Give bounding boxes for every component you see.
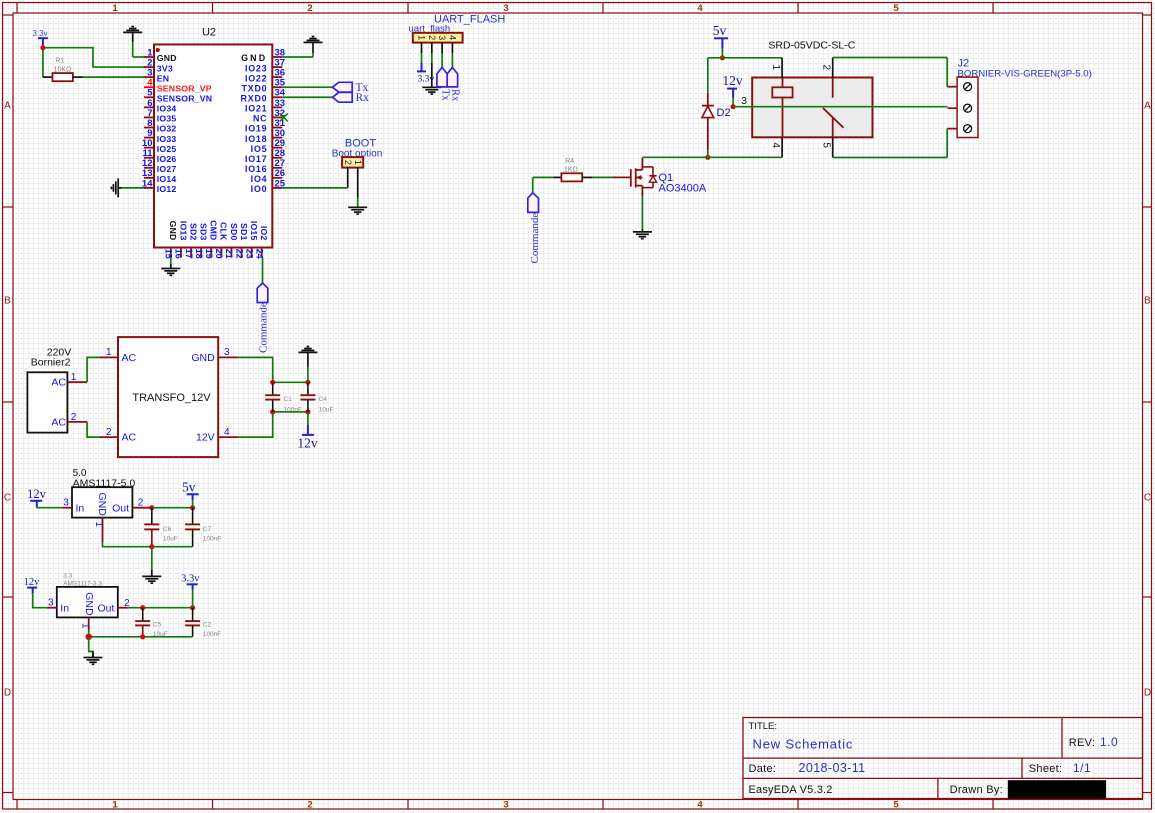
relay pin5 internal — [832, 118, 834, 138]
svg-text:IO34: IO34 — [157, 104, 177, 114]
svg-text:Commande: Commande — [257, 302, 269, 353]
ground (U2 pin15) — [161, 268, 180, 270]
power flag 12v (transformer) — [307, 425, 309, 435]
wire 12v to relay pin3 — [732, 98, 734, 107]
svg-text:U2: U2 — [202, 27, 216, 39]
U2 pin 22 SD1 — [241, 248, 243, 258]
svg-text:CLK: CLK — [219, 222, 229, 241]
svg-text:24: 24 — [255, 249, 265, 259]
svg-text:100nF: 100nF — [203, 631, 221, 638]
svg-text:20: 20 — [214, 249, 224, 259]
junction 3.3v — [40, 45, 45, 50]
wire BOOT pin1 to ground — [357, 198, 359, 208]
U2 pin 30 IO18 — [272, 137, 282, 139]
svg-text:EN: EN — [157, 73, 169, 83]
AMS3.3 pin3 lead — [47, 607, 57, 609]
relay pin1 lead — [781, 58, 783, 78]
svg-text:2: 2 — [71, 412, 77, 423]
wire 5v to rail — [721, 49, 723, 58]
relay coil lead bottom — [782, 98, 784, 138]
svg-text:TRANSFO_12V: TRANSFO_12V — [132, 392, 211, 404]
svg-text:RXD0: RXD0 — [241, 93, 268, 103]
svg-text:REV:: REV: — [1069, 737, 1095, 749]
svg-text:IO0: IO0 — [251, 184, 268, 194]
svg-text:1KΩ: 1KΩ — [564, 167, 578, 174]
net port Rx — [333, 92, 353, 102]
svg-text:Out: Out — [97, 602, 114, 614]
svg-text:AO3400A: AO3400A — [659, 183, 707, 195]
transformer pin1 lead — [99, 356, 118, 358]
svg-text:18: 18 — [194, 249, 204, 259]
frame column ticks — [16, 3, 18, 14]
svg-text:C6: C6 — [163, 526, 172, 533]
U2 pin 11 IO26 — [144, 157, 154, 159]
wire TXD0 to Tx port — [282, 86, 332, 88]
svg-text:AC: AC — [51, 416, 66, 428]
U2 pin 15 GND — [170, 248, 172, 258]
svg-text:A: A — [1144, 101, 1151, 112]
wire Out to 5v — [152, 507, 193, 509]
title block frame — [743, 718, 1143, 799]
svg-text:2: 2 — [106, 427, 112, 438]
svg-text:3: 3 — [48, 598, 54, 609]
wire drain rail to relay pin4 — [642, 156, 782, 158]
wire R1 to U2 pin3 EN — [83, 76, 145, 78]
transistor Q1 — [613, 176, 631, 178]
svg-text:SD2: SD2 — [188, 223, 198, 241]
svg-text:3.3: 3.3 — [63, 573, 72, 580]
U2 pin1 marker dot — [156, 48, 160, 52]
wire 3.3v to rail — [192, 590, 194, 608]
U2 pin 37 IO23 — [272, 66, 282, 68]
wire R4 to Q1 gate — [592, 176, 613, 178]
regulator U-5.0 body — [72, 487, 132, 517]
U2 pin 24 IO2 — [261, 248, 263, 258]
svg-text:SD3: SD3 — [199, 223, 209, 241]
svg-text:3: 3 — [224, 347, 230, 358]
U2 pin 3 EN — [144, 76, 154, 78]
relay switch blade — [823, 108, 844, 128]
svg-text:C1: C1 — [284, 396, 293, 403]
svg-text:AC: AC — [122, 432, 137, 444]
U2 pin 14 IO12 — [144, 187, 154, 189]
J2 pin1 lead — [947, 86, 957, 88]
relay pin5 lead — [832, 137, 834, 157]
wire ground to U2 pin14 — [122, 187, 144, 189]
ground (AMS3.3) — [84, 657, 103, 659]
svg-text:2: 2 — [343, 160, 353, 165]
svg-text:5v: 5v — [182, 480, 196, 495]
wire Out to 3.3v — [128, 607, 193, 609]
svg-text:IO14: IO14 — [157, 174, 177, 184]
net flag Rx (UART) — [447, 67, 457, 87]
junction C4 bottom — [305, 409, 310, 414]
junction relay pin3 — [731, 104, 736, 109]
U2 pin 31 IO19 — [272, 126, 282, 128]
wire to ground (AMS5.0) — [151, 547, 153, 570]
relay pin2 lead — [832, 58, 834, 78]
svg-text:12v: 12v — [297, 435, 318, 450]
junction C6 bottom — [149, 544, 154, 549]
svg-text:IO17: IO17 — [245, 154, 267, 164]
U2 pin 12 IO27 — [144, 167, 154, 169]
svg-text:10KΩ: 10KΩ — [54, 66, 72, 73]
relay pin2 internal — [832, 78, 834, 98]
wire transformer 12V to caps — [238, 412, 273, 437]
svg-text:TITLE:: TITLE: — [749, 721, 778, 732]
svg-text:D2: D2 — [717, 107, 731, 119]
junction C1 bottom — [270, 409, 275, 414]
svg-text:AC: AC — [122, 352, 137, 364]
header BOOT — [342, 157, 363, 168]
svg-text:C2: C2 — [203, 622, 212, 629]
svg-text:15: 15 — [164, 249, 174, 259]
svg-text:NC: NC — [253, 114, 267, 124]
svg-text:IO33: IO33 — [157, 134, 177, 144]
svg-text:R1: R1 — [55, 58, 64, 65]
wire ground to U2 pin1 — [132, 42, 134, 57]
wire cap bottom rail — [273, 411, 308, 413]
svg-text:IO4: IO4 — [251, 174, 268, 184]
svg-text:17: 17 — [184, 249, 194, 259]
U2 pin 27 IO16 — [272, 167, 282, 169]
wire cap top rail — [273, 381, 308, 383]
svg-text:5v: 5v — [713, 23, 727, 38]
title block row dividers — [743, 757, 1143, 759]
svg-text:IO15: IO15 — [249, 221, 259, 241]
svg-text:IO16: IO16 — [245, 164, 267, 174]
ground (U2 pin14) — [117, 178, 119, 197]
svg-text:21: 21 — [224, 249, 234, 259]
drawn by redaction box — [1008, 780, 1106, 798]
power flag 3.3v (UART) — [421, 63, 423, 71]
svg-text:GND: GND — [168, 221, 178, 241]
wire 12v to In — [37, 507, 63, 509]
J2 pin3 lead — [947, 128, 957, 130]
net flag Tx (UART) — [437, 67, 447, 87]
wire U2 pin25 to BOOT — [282, 187, 347, 189]
transformer body — [118, 337, 218, 457]
svg-text:IO21: IO21 — [245, 104, 267, 114]
wire 5v to rail — [192, 500, 194, 508]
svg-text:2: 2 — [307, 800, 312, 811]
svg-text:IO27: IO27 — [157, 164, 177, 174]
no-connect cross pin 32 — [280, 113, 288, 121]
svg-text:12V: 12V — [196, 432, 215, 444]
wire relay pin5 to J2 pin3 — [833, 157, 948, 159]
svg-text:1: 1 — [112, 3, 118, 14]
svg-text:Rx: Rx — [356, 92, 370, 104]
UART pin2 lead — [431, 43, 433, 53]
svg-text:3: 3 — [437, 35, 447, 40]
svg-text:IO2: IO2 — [259, 226, 269, 241]
wire Q1 source to ground — [641, 197, 643, 229]
U2 pin 20 CLK — [220, 248, 222, 258]
U2 pin 8 IO32 — [144, 126, 154, 128]
svg-text:23: 23 — [244, 249, 254, 259]
AMS3.3 pin1 lead GND — [88, 617, 90, 630]
svg-text:In: In — [76, 502, 85, 514]
resistor R1 — [43, 76, 53, 78]
svg-text:2018-03-11: 2018-03-11 — [799, 761, 866, 775]
U2 pin 28 IO17 — [272, 157, 282, 159]
transformer pin3 lead — [218, 356, 238, 358]
svg-text:3.3v: 3.3v — [32, 29, 47, 38]
svg-text:Date:: Date: — [749, 763, 777, 775]
wire Commande to R4 — [533, 176, 554, 178]
UART pin4 lead — [451, 43, 453, 53]
svg-text:GND: GND — [157, 53, 177, 63]
junction C6 top — [149, 505, 154, 510]
svg-text:D: D — [4, 688, 11, 699]
AMS5.0 pin1 lead GND — [102, 518, 104, 543]
junction C1 top — [270, 380, 275, 385]
wire 5v rail — [708, 57, 782, 59]
AMS3.3 pin2 lead — [118, 607, 128, 609]
relay pin4 lead — [781, 137, 783, 157]
BOOT pin2 lead — [347, 168, 349, 188]
svg-text:4: 4 — [697, 3, 703, 14]
relay body — [752, 78, 872, 138]
svg-text:1: 1 — [106, 347, 112, 358]
U2 pin 9 IO33 — [144, 137, 154, 139]
svg-text:3.3v: 3.3v — [181, 574, 200, 585]
wire Bornier2 pin1 to transformer — [87, 357, 99, 382]
svg-text:In: In — [60, 602, 69, 614]
svg-text:1: 1 — [79, 623, 90, 629]
wire transformer GND to caps — [238, 357, 273, 382]
ground (AMS5.0) — [142, 575, 161, 577]
svg-text:SD1: SD1 — [239, 223, 249, 241]
wire GND to cap bottoms — [103, 543, 193, 547]
svg-text:GND: GND — [83, 592, 95, 616]
capacitor C1 — [272, 382, 274, 395]
svg-text:5: 5 — [820, 142, 831, 148]
svg-text:3V3: 3V3 — [157, 63, 173, 73]
frame row ticks — [3, 14, 14, 16]
svg-text:3: 3 — [503, 800, 508, 811]
connector Bornier2 body — [27, 372, 67, 432]
svg-text:4: 4 — [448, 35, 458, 40]
svg-text:Commande: Commande — [529, 213, 541, 264]
junction C2 top — [190, 605, 195, 610]
svg-text:TXD0: TXD0 — [242, 83, 268, 93]
svg-text:12v: 12v — [722, 73, 743, 88]
wire U2 pin24 to Commande flag — [262, 258, 264, 284]
svg-text:4: 4 — [697, 800, 703, 811]
svg-text:IO23: IO23 — [245, 63, 267, 73]
wire ground to cap rail — [307, 367, 309, 383]
svg-text:AC: AC — [51, 377, 66, 389]
U2 pin 2 3V3 — [144, 66, 154, 68]
svg-text:1: 1 — [770, 65, 781, 71]
J2 pin2 lead — [948, 107, 958, 109]
U2 pin 6 IO34 — [144, 106, 154, 108]
svg-text:12v: 12v — [24, 577, 41, 588]
capacitor C2 — [192, 608, 194, 621]
wire to ground (AMS3.3) — [89, 637, 93, 658]
wire Bornier2 pin2 to transformer — [87, 422, 99, 437]
capacitor C4 — [307, 382, 309, 395]
svg-text:C4: C4 — [319, 396, 328, 403]
transformer pin4 lead — [218, 436, 238, 438]
J2 body — [957, 77, 978, 137]
svg-text:IO32: IO32 — [157, 124, 177, 134]
net flag Commande (relay) — [528, 193, 539, 213]
U2 pin 19 CMD — [210, 248, 212, 258]
svg-text:GND: GND — [241, 53, 267, 63]
svg-text:Tx: Tx — [439, 89, 450, 101]
capacitor C7 — [192, 508, 194, 524]
svg-text:12v: 12v — [27, 487, 47, 501]
U2 pin 18 SD3 — [200, 248, 202, 258]
ground (BOOT) — [348, 206, 367, 208]
transformer pin2 lead — [99, 436, 118, 438]
svg-text:10uF: 10uF — [319, 406, 334, 413]
svg-text:100nF: 100nF — [203, 536, 221, 543]
svg-text:GND: GND — [191, 352, 215, 364]
wire cap rail to 12v flag — [307, 412, 309, 425]
AMS5.0 pin2 lead — [132, 507, 151, 509]
svg-text:R4: R4 — [565, 158, 574, 165]
wire UART pin2 to ground — [431, 53, 433, 63]
wire UART pin4 to Rx — [451, 53, 453, 67]
wire relay pin2 to J2 pin1 — [833, 57, 948, 59]
svg-text:GND: GND — [96, 493, 108, 517]
wire rail down to D2 — [707, 58, 709, 93]
U2 pin 25 IO0 — [272, 187, 282, 189]
wire U2 pin15 to ground — [170, 258, 172, 265]
UART pin1 lead — [421, 43, 423, 53]
junction GND (AMS3.3) — [86, 634, 92, 640]
svg-text:C: C — [1144, 493, 1151, 504]
J2 screw terminals — [964, 83, 972, 91]
wire GND to cap bottoms (3.3) — [88, 630, 90, 637]
resistor R4 — [554, 176, 562, 178]
svg-text:1: 1 — [93, 521, 104, 527]
svg-text:5: 5 — [893, 3, 899, 14]
svg-text:IO25: IO25 — [157, 144, 177, 154]
wire RXD0 to Rx port — [282, 96, 332, 98]
svg-text:SENSOR_VP: SENSOR_VP — [157, 83, 212, 93]
relay coil — [772, 87, 792, 97]
junction C5 top — [140, 605, 145, 610]
svg-text:1/1: 1/1 — [1073, 761, 1091, 775]
diode D2 — [707, 93, 709, 106]
U2 pin 26 IO4 — [272, 177, 282, 179]
junction C4 top — [305, 380, 310, 385]
U2 pin 16 IO13 — [180, 248, 182, 258]
svg-text:1.0: 1.0 — [1100, 735, 1118, 749]
header UART_FLASH — [413, 33, 463, 43]
ground (transformer) — [298, 351, 317, 353]
U2 pin 5 SENSOR_VN — [144, 96, 154, 98]
svg-text:4: 4 — [224, 427, 230, 438]
svg-text:4: 4 — [770, 142, 781, 148]
svg-text:2: 2 — [307, 3, 312, 14]
U2 pin 4 SENSOR_VP — [144, 86, 154, 88]
svg-text:C: C — [4, 493, 11, 504]
wire relay pin3 to J2 pin2 — [733, 106, 948, 108]
U2 pin 32 NC — [272, 116, 282, 118]
svg-text:B: B — [1144, 296, 1151, 307]
svg-text:Drawn By:: Drawn By: — [950, 784, 1003, 796]
U2 pin 38 GND — [272, 56, 282, 58]
svg-text:EasyEDA V5.3.2: EasyEDA V5.3.2 — [749, 784, 833, 796]
svg-text:16: 16 — [174, 249, 184, 259]
wire Q1 drain to rail — [641, 157, 643, 158]
AMS5.0 pin3 lead — [63, 507, 73, 509]
svg-text:3: 3 — [741, 95, 747, 107]
U2 pin 23 IO15 — [251, 248, 253, 258]
junction 5v rail — [720, 55, 725, 60]
net port Tx — [333, 82, 353, 92]
Bornier2 pin1 lead — [67, 381, 87, 383]
ground (U2 pin1) — [123, 31, 142, 33]
wire ground to U2 pin38 — [312, 53, 314, 57]
U2 pin 36 IO22 — [272, 76, 282, 78]
svg-text:1: 1 — [112, 800, 118, 811]
svg-text:B: B — [4, 296, 11, 307]
ground (UART) — [422, 86, 441, 88]
svg-text:IO22: IO22 — [245, 73, 267, 83]
svg-text:22: 22 — [234, 249, 244, 259]
BOOT pin1 lead — [357, 168, 359, 198]
U2 body — [154, 45, 272, 248]
U2 pin 7 IO35 — [144, 116, 154, 118]
wire UART pin1 to 3.3v — [421, 53, 423, 63]
net flag Commande (U2) — [257, 283, 268, 303]
junction C7 top — [190, 505, 195, 510]
svg-text:IO18: IO18 — [245, 134, 267, 144]
wire 12v to In (3.3) — [33, 593, 47, 607]
U2 pin 35 TXD0 — [272, 86, 282, 88]
svg-text:Bornier2: Bornier2 — [31, 357, 71, 369]
svg-text:IO13: IO13 — [178, 221, 188, 241]
svg-text:SRD-05VDC-SL-C: SRD-05VDC-SL-C — [768, 39, 855, 51]
U2 pin 34 RXD0 — [272, 96, 282, 98]
U2 pin 17 SD2 — [190, 248, 192, 258]
svg-text:Sheet:: Sheet: — [1029, 763, 1063, 775]
wire 3.3v down to R1 — [42, 50, 44, 77]
svg-text:A: A — [4, 101, 11, 112]
svg-text:IO26: IO26 — [157, 154, 177, 164]
svg-text:2: 2 — [138, 498, 144, 509]
svg-text:Out: Out — [112, 502, 129, 514]
junction C5 bottom — [140, 634, 145, 639]
svg-text:2: 2 — [427, 35, 437, 40]
svg-text:Rx: Rx — [450, 89, 461, 102]
relay coil lead top — [782, 78, 784, 88]
svg-text:D: D — [1144, 688, 1151, 699]
svg-text:CMD: CMD — [209, 220, 219, 240]
svg-text:100nF: 100nF — [284, 406, 302, 413]
U2 pin 21 SD0 — [230, 248, 232, 258]
capacitor C6 — [151, 508, 153, 524]
svg-text:IO35: IO35 — [157, 114, 177, 124]
svg-text:1: 1 — [71, 372, 77, 383]
svg-text:3: 3 — [63, 498, 69, 509]
ground (U2 pin38) — [304, 41, 323, 43]
svg-text:19: 19 — [204, 249, 214, 259]
svg-text:2: 2 — [820, 65, 831, 71]
capacitor C5 — [142, 608, 144, 621]
U2 pin 33 IO21 — [272, 106, 282, 108]
wire 3.3v to U2 pin2 — [45, 48, 144, 67]
svg-text:1: 1 — [353, 160, 363, 165]
svg-text:IO12: IO12 — [157, 184, 177, 194]
svg-text:SENSOR_VN: SENSOR_VN — [157, 93, 212, 103]
